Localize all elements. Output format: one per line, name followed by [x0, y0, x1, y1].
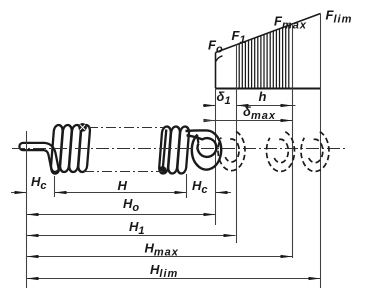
spring 1 arm hook (double line wire): [23, 147, 55, 171]
dashed hook phantom 1 inner: [225, 139, 239, 162]
svg-text:Hc: Hc: [31, 174, 48, 192]
main centerline dash-dot: [12, 148, 347, 150]
svg-text:F1: F1: [232, 28, 247, 46]
svg-text:Fo: Fo: [208, 38, 224, 56]
svg-text:H: H: [118, 178, 128, 193]
spring 1 wire end circle: [78, 123, 87, 132]
extension line at spring2 coil end x=186.5: [186, 174, 188, 198]
dimension row Hlim: [27, 278, 321, 280]
dimension row Hc H Hc: [11, 192, 231, 194]
extension line Fmax/Hmax: [292, 25, 294, 258]
svg-text:Flim: Flim: [326, 8, 353, 26]
top wire continuation dash-dot: [88, 127, 163, 129]
left extension line (hook end): [26, 131, 28, 288]
svg-text:δ1: δ1: [217, 89, 232, 107]
extension line delta/Ho at hook end: [215, 88, 217, 225]
spring 2 end dot: [159, 166, 166, 173]
dashed hook phantom 1 outer: [218, 132, 245, 171]
dimension row Hmax: [27, 256, 293, 258]
hatching of work area h: [239, 26, 289, 88]
force diagram slant line F0 to Flim: [216, 14, 321, 53]
dimension row Ho: [27, 214, 216, 216]
svg-text:Hc: Hc: [192, 178, 209, 196]
spring 2 hook outer sweep with bridge top line: [186, 130, 222, 169]
svg-text:Ho: Ho: [123, 196, 140, 214]
svg-text:h: h: [259, 89, 267, 104]
extension line F1/H1: [236, 45, 238, 244]
spring 1 coils: [51, 125, 91, 172]
spring 2 wire to end dot: [163, 130, 167, 169]
svg-text:Hmax: Hmax: [145, 241, 179, 259]
svg-text:δmax: δmax: [243, 104, 276, 122]
force diagram baseline: [215, 88, 321, 90]
spring 2 coils: [159, 127, 190, 174]
leader arc at F0 corner: [216, 56, 223, 62]
dashed hook phantom 2 outer: [267, 132, 295, 172]
dimension row delta1 and h: [203, 104, 296, 107]
spring 2 hook tip cap: [197, 136, 198, 143]
dimension row delta max: [204, 119, 293, 122]
spring 2 hook eye with bridge bottom line: [187, 135, 217, 157]
svg-text:Hlim: Hlim: [150, 262, 178, 280]
extension line at coil start x=54: [54, 176, 56, 197]
dimension row H1: [27, 235, 236, 237]
svg-text:H1: H1: [129, 219, 146, 237]
extension line Flim/Hlim: [320, 14, 322, 289]
dashed hook phantom 3 outer: [301, 132, 329, 172]
force diagram left edge: [215, 53, 217, 89]
dashed hook phantom 3 inner: [309, 139, 323, 162]
bottom wire continuation dash-dot: [84, 171, 163, 173]
dashed hook phantom 2 inner: [274, 139, 288, 162]
